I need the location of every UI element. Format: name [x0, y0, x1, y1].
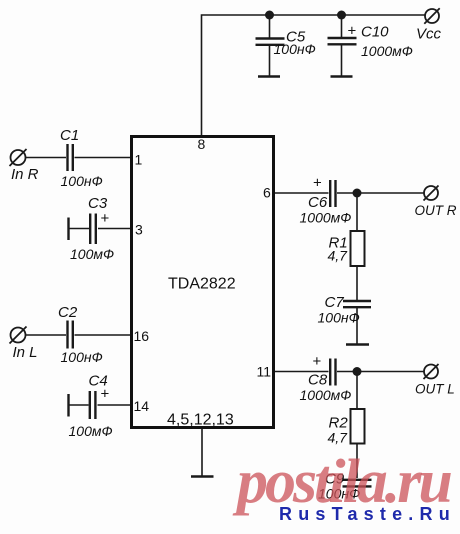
svg-text:6: 6	[263, 185, 271, 201]
svg-text:TDA2822: TDA2822	[168, 276, 236, 293]
svg-text:100мФ: 100мФ	[69, 423, 113, 439]
svg-text:1000мФ: 1000мФ	[300, 387, 352, 403]
svg-text:3: 3	[135, 222, 143, 238]
svg-text:100мФ: 100мФ	[70, 246, 114, 262]
svg-text:C6: C6	[308, 194, 328, 211]
svg-text:4,5,12,13: 4,5,12,13	[167, 412, 234, 429]
svg-text:C8: C8	[308, 372, 328, 389]
svg-text:4,7: 4,7	[328, 430, 349, 446]
svg-text:OUT L: OUT L	[415, 382, 455, 397]
svg-text:100нФ: 100нФ	[274, 41, 316, 57]
svg-text:100нФ: 100нФ	[61, 349, 103, 365]
svg-text:OUT R: OUT R	[415, 203, 457, 218]
svg-text:+: +	[348, 23, 357, 40]
svg-text:+: +	[101, 210, 110, 227]
svg-text:+: +	[101, 386, 110, 403]
svg-text:C7: C7	[325, 294, 345, 311]
svg-text:+: +	[313, 175, 322, 192]
svg-text:C2: C2	[58, 304, 78, 321]
svg-text:1000мФ: 1000мФ	[361, 43, 413, 59]
svg-text:11: 11	[257, 364, 272, 380]
svg-text:C10: C10	[361, 24, 389, 41]
svg-text:1000мФ: 1000мФ	[300, 210, 352, 226]
svg-text:In R: In R	[11, 166, 39, 183]
svg-text:4,7: 4,7	[328, 248, 349, 264]
svg-text:16: 16	[134, 328, 150, 344]
svg-text:100нФ: 100нФ	[61, 173, 103, 189]
svg-text:100нФ: 100нФ	[318, 310, 360, 326]
svg-text:C1: C1	[60, 127, 79, 144]
svg-text:14: 14	[134, 398, 150, 414]
svg-text:Vcc: Vcc	[416, 26, 442, 43]
svg-text:8: 8	[198, 136, 206, 152]
svg-text:+: +	[313, 353, 322, 370]
svg-text:1: 1	[135, 152, 143, 168]
svg-text:In L: In L	[13, 344, 38, 361]
